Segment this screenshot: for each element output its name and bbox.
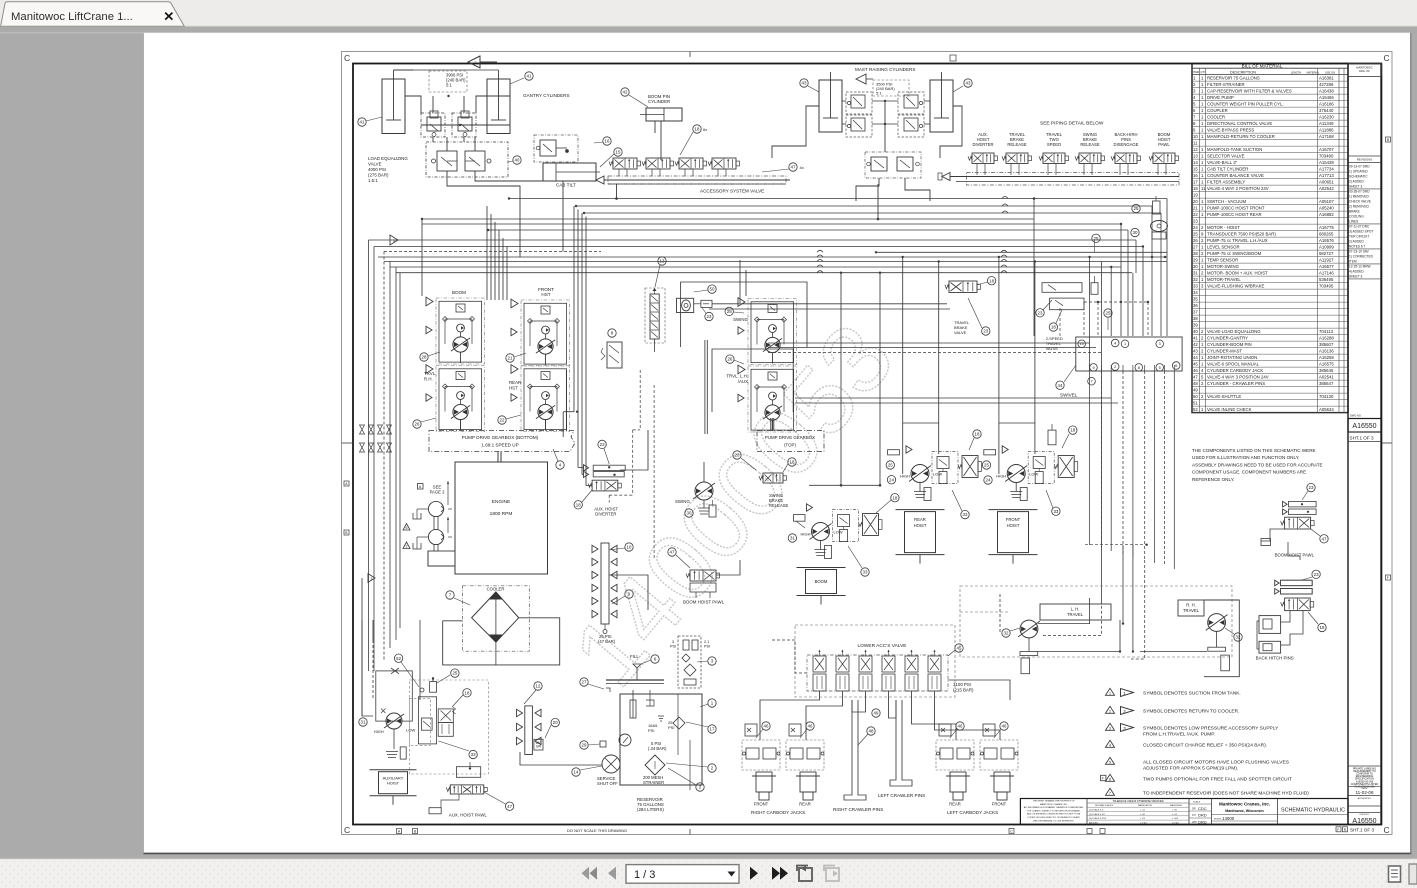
wire bundle right vertical drops — [1034, 199, 1167, 605]
svg-text:RELEASE: RELEASE — [1080, 142, 1100, 147]
svg-text:5:1: 5:1 — [876, 91, 882, 96]
svg-text:26: 26 — [727, 357, 732, 362]
svg-text:PAGE 2: PAGE 2 — [430, 490, 445, 495]
svg-text:VALVE: VALVE — [368, 162, 382, 167]
svg-text:MANIFOLD-RETURN TO COOLER: MANIFOLD-RETURN TO COOLER — [1207, 134, 1275, 139]
svg-text:6: 6 — [406, 526, 408, 530]
svg-text:MOTOR-SWING: MOTOR-SWING — [1207, 264, 1240, 269]
zone letter C bottom-left — [344, 825, 350, 835]
svg-text:THE COMPONENTS LISTED ON THIS: THE COMPONENTS LISTED ON THIS SCHEMATIC … — [1192, 448, 1316, 453]
back hitch shuttle 23 — [1281, 580, 1313, 594]
svg-text:26: 26 — [415, 422, 420, 427]
svg-text:(215 BAR): (215 BAR) — [953, 688, 974, 693]
wire mast to bundle — [772, 106, 962, 201]
svg-text:LEFT CRAWLER PINS: LEFT CRAWLER PINS — [878, 793, 925, 798]
see page 2 label — [418, 484, 446, 495]
svg-text:46: 46 — [1193, 368, 1198, 373]
pump group TRVL R.H. (26) — [424, 365, 485, 432]
mast suction arrow — [856, 74, 873, 84]
svg-text:HST: HST — [509, 386, 518, 391]
svg-text:DWG NO.: DWG NO. — [1360, 814, 1370, 816]
balloon 31 aux — [359, 718, 367, 726]
fill manifold bar — [606, 668, 664, 684]
balloon 2 — [403, 542, 410, 549]
svg-text:30: 30 — [687, 511, 692, 516]
balloon 23 2speed — [1036, 300, 1052, 317]
svg-text:3: 3 — [1109, 727, 1111, 731]
balloon 7 — [446, 591, 470, 605]
drum front hoist — [989, 510, 1038, 564]
document tab — [1, 2, 185, 27]
svg-text:SHT.1 OF 3: SHT.1 OF 3 — [1350, 436, 1374, 441]
cylinder 41 gantry left — [382, 70, 413, 134]
svg-text:9: 9 — [1092, 366, 1094, 370]
svg-text:A02542: A02542 — [1319, 186, 1334, 191]
svg-text:Manitowoc, Wisconsin: Manitowoc, Wisconsin — [1225, 809, 1264, 813]
svg-text:43: 43 — [802, 81, 807, 86]
svg-text:14000: 14000 — [1222, 816, 1235, 821]
balloon 18 aux2 — [452, 689, 471, 707]
svg-text:REVISIONS: REVISIONS — [1357, 158, 1372, 162]
wire gantry manifold — [405, 95, 510, 142]
valve 47 back hitch — [1281, 598, 1314, 611]
balloon 33 aux — [438, 741, 477, 759]
balloon 16 — [594, 137, 611, 145]
balloon 8 — [608, 329, 616, 337]
svg-text:PUMP-75 cc TRAVEL L.H./AUX: PUMP-75 cc TRAVEL L.H./AUX — [1207, 238, 1268, 243]
svg-text:23: 23 — [1038, 310, 1043, 315]
wire 2speed dashed drops — [1060, 301, 1149, 336]
motor 32 RH travel — [1178, 600, 1239, 677]
cooler 7 — [462, 586, 529, 651]
service shut off 14 — [597, 755, 620, 786]
svg-text:A17168: A17168 — [1319, 134, 1334, 139]
solenoid valve BOOM HOIST PAWL — [1149, 132, 1179, 175]
svg-text:HIGH: HIGH — [900, 474, 910, 479]
svg-text:HOIST: HOIST — [914, 523, 927, 528]
svg-text:20: 20 — [1193, 199, 1198, 204]
balloon 42 — [621, 88, 648, 107]
right crawler pins — [833, 700, 883, 812]
manifold 10 return filter bank — [592, 543, 617, 624]
pump group FRONT HST (21) — [511, 287, 570, 366]
svg-text:385607: 385607 — [1319, 342, 1334, 347]
svg-text:47: 47 — [791, 165, 796, 170]
svg-text:DESCRIPTION: DESCRIPTION — [1230, 70, 1256, 74]
sheet number bottom right — [1350, 827, 1374, 832]
svg-text:41: 41 — [360, 120, 365, 125]
balloon 22 — [498, 415, 521, 424]
valve 23 shuttle aux — [584, 465, 626, 478]
svg-text:HOIST: HOIST — [387, 781, 400, 786]
svg-text:21: 21 — [1193, 206, 1198, 211]
svg-text:RELEASE: RELEASE — [1007, 142, 1027, 147]
swing brake release valve 18 — [759, 473, 789, 508]
svg-text:4) ADDED: 4) ADDED — [1349, 270, 1364, 274]
svg-text:703480: 703480 — [1319, 154, 1334, 159]
svg-text:TRVL. L.H.: TRVL. L.H. — [726, 374, 748, 379]
svg-text:3) ADDED SPOT: 3) ADDED SPOT — [1349, 230, 1373, 234]
balloon 33 boom — [848, 546, 869, 576]
svg-text:SHEET 3: SHEET 3 — [1349, 275, 1362, 279]
svg-text:45: 45 — [957, 646, 962, 651]
tank symbol lower — [413, 537, 428, 549]
svg-text:AND ON EXPRESS CONDITION THAT: AND ON EXPRESS CONDITION THAT IT IS NOT … — [1027, 813, 1081, 816]
balloon 47 aux — [484, 792, 514, 810]
svg-text:DIVERTER: DIVERTER — [972, 142, 993, 147]
svg-text:DISENGAGE: DISENGAGE — [1114, 142, 1139, 147]
svg-text:Manitowoc Cranes, Inc.: Manitowoc Cranes, Inc. — [1219, 802, 1270, 807]
svg-text:1: 1 — [1124, 342, 1126, 346]
svg-text:A02541: A02541 — [1319, 375, 1334, 380]
svg-text:6: 6 — [1175, 364, 1177, 368]
svg-text:A05634: A05634 — [1319, 407, 1334, 412]
svg-text:HIGH: HIGH — [996, 474, 1006, 479]
svg-text:DRD: DRD — [1198, 813, 1207, 818]
svg-text:16: 16 — [1193, 173, 1198, 178]
pump drive gearbox bottom banner — [429, 431, 575, 452]
mast relief label — [873, 80, 909, 96]
svg-text:A17713: A17713 — [1319, 173, 1334, 178]
balloon 43 left — [800, 79, 819, 92]
svg-text:VALVE INLINE CHECK: VALVE INLINE CHECK — [1207, 407, 1252, 412]
svg-text:A00651: A00651 — [1319, 180, 1334, 185]
cylinder 43 mast right — [930, 72, 953, 132]
reservoir tank 1 — [619, 690, 702, 790]
svg-text:37: 37 — [1193, 310, 1198, 315]
svg-text:1: 1 — [1109, 692, 1111, 696]
balloon 47 center — [668, 548, 690, 568]
svg-text:QTY: QTY — [1200, 70, 1206, 74]
junction dots on bundles — [421, 197, 1166, 274]
svg-text:ALL INFORMATION CONTAINED THER: ALL INFORMATION CONTAINED THEREIN IS CON… — [1024, 806, 1084, 809]
engine pedestal — [428, 551, 455, 566]
valve 8 bypass — [601, 342, 622, 368]
svg-text:SHT.1 OF 3: SHT.1 OF 3 — [1350, 827, 1374, 832]
travel brake valve — [945, 281, 981, 335]
svg-text:VALVE-LOAD EQUALIZING: VALVE-LOAD EQUALIZING — [1207, 329, 1261, 334]
svg-text:3100 PSI: 3100 PSI — [953, 682, 971, 687]
svg-text:FRONT: FRONT — [754, 802, 769, 807]
svg-text:VALVE-4 WAY 3 POSITION 24V: VALVE-4 WAY 3 POSITION 24V — [1207, 375, 1269, 380]
svg-text:44: 44 — [1058, 383, 1063, 388]
svg-text:/AUX: /AUX — [738, 379, 748, 384]
gantry counterbalance valve left — [421, 111, 445, 137]
tank symbol upper — [413, 509, 428, 519]
svg-text:10: 10 — [1193, 134, 1198, 139]
label left carbody jacks — [947, 810, 998, 815]
svg-text:FILTER ASSEMBLY: FILTER ASSEMBLY — [1207, 180, 1245, 185]
motor 31 auxiliary hoist — [374, 668, 489, 774]
svg-text:34: 34 — [1193, 290, 1198, 295]
label load equalizing valve — [368, 156, 408, 183]
wire accessory drop — [615, 184, 1035, 220]
svg-text:LOW: LOW — [933, 472, 942, 477]
svg-text:27: 27 — [1193, 245, 1198, 250]
label 3100 psi — [953, 682, 974, 693]
svg-text:7: 7 — [1090, 380, 1092, 384]
svg-text:385647: 385647 — [1319, 381, 1334, 386]
svg-text:1.5:1: 1.5:1 — [368, 178, 378, 183]
svg-text:(TOP): (TOP) — [784, 443, 796, 448]
balloon 24 rear — [886, 450, 899, 484]
balloon 26 lh — [726, 355, 744, 364]
svg-text:HOIST: HOIST — [1007, 523, 1020, 528]
svg-text:40: 40 — [515, 158, 520, 163]
svg-text:GANTRY CYLINDERS: GANTRY CYLINDERS — [523, 93, 570, 98]
lower accs valve 45 — [807, 643, 948, 691]
drum auxiliary hoist — [370, 770, 417, 805]
svg-text:SCHEMATIC HYDRAULIC: SCHEMATIC HYDRAULIC — [1281, 808, 1345, 814]
load equalizing valve 40 — [426, 142, 508, 177]
svg-text:CAP-RESERVOIR WITH FILTER & VA: CAP-RESERVOIR WITH FILTER & VALVES — [1207, 89, 1292, 94]
gantry counterbalance valve right — [452, 111, 476, 137]
svg-text:28: 28 — [422, 355, 427, 360]
svg-text:DR: DR — [1192, 807, 1196, 810]
svg-text:MANITOWOC: MANITOWOC — [1356, 66, 1373, 70]
svg-text:10: 10 — [627, 545, 632, 550]
svg-text:C: C — [1384, 53, 1390, 63]
wire bundle vertical center left — [487, 206, 592, 486]
svg-text:PAWL: PAWL — [1158, 142, 1170, 147]
svg-text:18: 18 — [465, 690, 470, 695]
svg-text:A16288: A16288 — [1319, 336, 1334, 341]
svg-text:2) ADDED: 2) ADDED — [1349, 240, 1364, 244]
svg-text:A16882: A16882 — [1319, 212, 1334, 217]
svg-text:HST: HST — [541, 292, 550, 297]
svg-text:DRIVE PUMP: DRIVE PUMP — [1207, 95, 1234, 100]
toolbar page number box — [626, 865, 739, 884]
svg-text:SYMBOL DENOTES RETURN TO COOLE: SYMBOL DENOTES RETURN TO COOLER. — [1143, 708, 1239, 714]
svg-text:48: 48 — [869, 729, 874, 734]
svg-text:AUTHOR NO.: AUTHOR NO. — [1358, 797, 1372, 800]
svg-text:703495: 703495 — [1319, 284, 1334, 289]
svg-text:8: 8 — [1138, 366, 1140, 370]
svg-text:41: 41 — [1193, 336, 1198, 341]
balloon 44 swivel — [1056, 365, 1078, 398]
outer border frame — [342, 52, 1393, 835]
svg-text:26: 26 — [1193, 238, 1198, 243]
svg-text:SYMBOL DENOTES SUCTION FROM TA: SYMBOL DENOTES SUCTION FROM TANK. — [1143, 690, 1241, 696]
svg-text:VALVE-BYPASS PRESS: VALVE-BYPASS PRESS — [1207, 128, 1254, 133]
label gantry cylinders — [523, 93, 570, 98]
svg-text:18: 18 — [989, 278, 994, 283]
svg-text:44: 44 — [1193, 355, 1198, 360]
svg-text:15: 15 — [616, 150, 621, 155]
solenoid valve BACK-HIRH PINS DISENGAGE — [1111, 132, 1141, 175]
balloon 32 lh — [1002, 628, 1020, 637]
balloon 18 front — [1048, 424, 1077, 448]
svg-text:22: 22 — [1193, 212, 1198, 217]
svg-text:6x: 6x — [703, 127, 707, 132]
svg-text:VALVE: VALVE — [954, 330, 967, 335]
balloon 28 — [420, 352, 440, 361]
svg-text:47: 47 — [1322, 536, 1327, 541]
svg-text:23: 23 — [983, 329, 988, 334]
svg-text:23: 23 — [1314, 572, 1319, 577]
svg-text:CAB TILT CYLINDER: CAB TILT CYLINDER — [1207, 167, 1248, 172]
svg-text:2: 2 — [475, 61, 477, 65]
svg-text:AUX. HOIST PAWL: AUX. HOIST PAWL — [449, 813, 488, 818]
label mast raising cylinders — [855, 67, 915, 72]
svg-text:25: 25 — [888, 463, 893, 468]
motor 30 swing — [675, 482, 716, 517]
svg-text:CYLINDER - CRAWLER PINS: CYLINDER - CRAWLER PINS — [1207, 381, 1265, 386]
wire center risers — [620, 260, 746, 470]
svg-text:1) CORRECTED: 1) CORRECTED — [1349, 255, 1374, 259]
svg-text:1) UPDATED: 1) UPDATED — [1349, 170, 1368, 174]
svg-text:A16775: A16775 — [1319, 225, 1334, 230]
svg-text:A10999: A10999 — [1319, 245, 1334, 250]
svg-text:CAB TILT: CAB TILT — [556, 183, 576, 188]
svg-text:BILL OF MATERIAL: BILL OF MATERIAL — [1242, 63, 1283, 68]
svg-text:27: 27 — [582, 680, 587, 685]
svg-text:33: 33 — [1193, 284, 1198, 289]
motor 31 boom hoist — [801, 504, 883, 559]
svg-text:Manitowoc LiftCrane 1...: Manitowoc LiftCrane 1... — [11, 11, 133, 23]
solenoid valve TRAVEL TWO SPEED — [1039, 132, 1069, 175]
svg-text:CLOSED CIRCUIT CHARGE RELIEF =: CLOSED CIRCUIT CHARGE RELIEF = 350 PSI(2… — [1143, 742, 1267, 748]
svg-text:NOTES 6 7: NOTES 6 7 — [1349, 245, 1366, 249]
svg-text:ITEM: ITEM — [1193, 70, 1199, 74]
svg-text:TRAVEL: TRAVEL — [1183, 608, 1200, 613]
svg-text:20: 20 — [553, 720, 558, 725]
svg-text:C: C — [1384, 825, 1390, 835]
svg-text:SWITCH - VACUUM: SWITCH - VACUUM — [1207, 199, 1246, 204]
svg-text:LENGTH: LENGTH — [1291, 70, 1302, 74]
svg-text:19: 19 — [1193, 193, 1198, 198]
svg-text:32: 32 — [1236, 635, 1241, 640]
motor 32 LH travel — [1018, 604, 1111, 674]
wire cooler loop — [443, 618, 560, 665]
svg-text:14: 14 — [574, 770, 579, 775]
svg-text:A17146: A17146 — [1319, 271, 1334, 276]
svg-text:A11349: A11349 — [1319, 121, 1334, 126]
label accessory system valve — [700, 189, 764, 194]
svg-text:TOLERANCE UNLESS OTHERWISE SPE: TOLERANCE UNLESS OTHERWISE SPECIFIED — [1112, 800, 1163, 803]
svg-text:2: 2 — [1114, 365, 1116, 369]
svg-text:704130: 704130 — [1319, 394, 1334, 399]
swivel port balloons — [1078, 339, 1180, 385]
svg-text:29: 29 — [1193, 258, 1198, 263]
svg-text:SCHEMATIC: SCHEMATIC — [1349, 175, 1368, 179]
balloon 23 travelbrake — [968, 298, 990, 335]
balloon 10 — [609, 543, 633, 551]
wire right pawl — [1160, 345, 1300, 560]
balloon 12 — [524, 682, 542, 704]
toolbar previous-page button — [608, 867, 616, 880]
level sensor 25 27 30 — [1131, 196, 1168, 239]
svg-text:COPIED OR USED DIRECTLY OR IND: COPIED OR USED DIRECTLY OR INDIRECTLY IN… — [1027, 816, 1080, 819]
balloon 47 4x left — [762, 163, 804, 172]
balloon 14 — [572, 766, 602, 776]
pump group BOOM (28) — [426, 290, 485, 364]
svg-text:PSI: PSI — [704, 645, 710, 649]
wire load-eq to gantry — [447, 137, 563, 196]
svg-text:23: 23 — [1193, 219, 1198, 224]
title block — [1020, 799, 1348, 825]
svg-text:07-23-10 SAV: 07-23-10 SAV — [1349, 250, 1370, 254]
drive pump circle upper — [428, 481, 452, 517]
svg-text:BOOM: BOOM — [815, 579, 828, 584]
svg-text:C: C — [344, 825, 350, 835]
svg-text:LEFT CARBODY JACKS: LEFT CARBODY JACKS — [947, 810, 998, 815]
svg-text:25: 25 — [452, 671, 457, 676]
balloon 21 — [506, 353, 526, 362]
balloon 27 — [580, 678, 610, 692]
balloon 25 right2 — [1104, 309, 1112, 330]
svg-text:21: 21 — [508, 356, 513, 361]
balloon 2 reservoir — [666, 763, 716, 772]
balloon 15 — [600, 148, 622, 167]
svg-text:MATERIAL: MATERIAL — [1307, 70, 1320, 74]
inner border frame — [353, 64, 1381, 825]
svg-text:32: 32 — [1004, 631, 1009, 636]
svg-text:DECIMAL PLACES: DECIMAL PLACES — [1095, 804, 1114, 807]
svg-text:PUMP-75 cc SWING/BOOM: PUMP-75 cc SWING/BOOM — [1207, 251, 1262, 256]
svg-text:31: 31 — [1193, 271, 1198, 276]
svg-text:680265: 680265 — [1319, 232, 1334, 237]
svg-text:33: 33 — [471, 752, 476, 757]
svg-text:23: 23 — [1309, 485, 1314, 490]
svg-text:BOOM HOIST PAWL: BOOM HOIST PAWL — [683, 600, 725, 605]
svg-text:4000 PSI: 4000 PSI — [368, 167, 386, 172]
valve 47 aux hoist pawl — [429, 762, 487, 818]
svg-text:47: 47 — [507, 804, 512, 809]
svg-text:± 1°30': ± 1°30' — [1140, 822, 1147, 824]
balloon 41 right — [510, 72, 533, 84]
svg-text:49: 49 — [1193, 388, 1198, 393]
balloon 18 2speed — [1049, 310, 1062, 331]
svg-text:CH: CH — [1192, 814, 1196, 817]
label boom pin cylinder — [648, 94, 670, 104]
svg-text:31: 31 — [790, 536, 795, 541]
svg-text:VALVE: VALVE — [1046, 346, 1059, 351]
svg-text:CYLINDER: CYLINDER — [648, 99, 670, 104]
svg-text:CYLINDER-MAST: CYLINDER-MAST — [1207, 349, 1242, 354]
svg-text:18: 18 — [695, 127, 700, 132]
balloon 48 pins — [858, 709, 880, 745]
svg-text:(275 BAR): (275 BAR) — [368, 173, 389, 178]
svg-text:CYLINDER CARBODY JACK: CYLINDER CARBODY JACK — [1207, 368, 1263, 373]
svg-text:BOOM: BOOM — [452, 290, 466, 295]
svg-text:38: 38 — [1193, 316, 1198, 321]
wire reservoir suction — [520, 733, 690, 765]
svg-text:PUMP-100CC HOIST FRONT: PUMP-100CC HOIST FRONT — [1207, 206, 1265, 211]
svg-text:BOOM HOIST PAWL: BOOM HOIST PAWL — [1275, 553, 1315, 558]
cylinder 42 boom pin — [640, 108, 682, 160]
svg-text:42: 42 — [623, 90, 628, 95]
svg-text:DIRECTIONAL CONTROL VALVE: DIRECTIONAL CONTROL VALVE — [1207, 121, 1272, 126]
svg-text:30: 30 — [1193, 264, 1198, 269]
label see piping detail below — [1040, 121, 1104, 127]
vacuum switch 20 — [534, 718, 560, 750]
wire bundle top horizontal — [369, 199, 1168, 247]
wire jack feeds — [760, 691, 1000, 740]
svg-text:A16707: A16707 — [1319, 147, 1334, 152]
svg-text:18: 18 — [1193, 186, 1198, 191]
balloon 29 — [580, 741, 606, 749]
svg-text:JOINT-ROTATING UNION: JOINT-ROTATING UNION — [1207, 355, 1257, 360]
svg-text:12-25-12 MRW: 12-25-12 MRW — [1349, 265, 1371, 269]
svg-text:17: 17 — [710, 727, 715, 732]
svg-text:43: 43 — [1193, 349, 1198, 354]
balloon 50 and 23 — [694, 285, 717, 321]
valve 47 boom hoist pawl center — [683, 570, 725, 605]
svg-text:PUMP DRIVE GEARBOX: PUMP DRIVE GEARBOX — [765, 435, 815, 440]
balloon 4 — [553, 449, 564, 469]
svg-text:ITEM: ITEM — [1349, 260, 1357, 264]
